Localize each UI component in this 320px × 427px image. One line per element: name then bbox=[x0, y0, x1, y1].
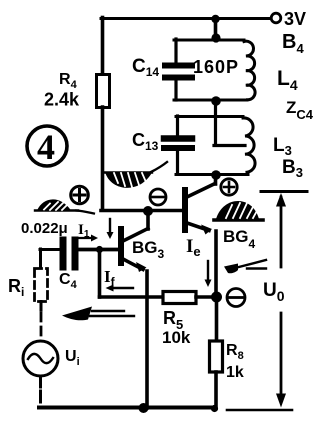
source Ui bbox=[23, 341, 80, 376]
dimension: U0 upper arrow (up) bbox=[276, 193, 286, 267]
node: R8 at ground rail bbox=[211, 405, 218, 412]
svg-text:L3: L3 bbox=[273, 135, 292, 158]
svg-text:L4: L4 bbox=[277, 67, 298, 93]
polarity mark minus (BG3 collector) bbox=[150, 189, 166, 205]
tank 1: capacitor C14 bbox=[132, 39, 247, 100]
inductor L3 (tank 2 coil, tapped) bbox=[243, 118, 255, 172]
wire: left vertical from rail to R4 bbox=[101, 18, 105, 76]
svg-text:U0: U0 bbox=[263, 280, 285, 304]
waveform sketch: hatched half-wave at BG4 bbox=[214, 201, 263, 220]
wire: dashed link to source Ui bbox=[40, 313, 43, 341]
wire: bottom ground rail bbox=[39, 406, 214, 410]
resistor R5 bbox=[162, 292, 196, 348]
svg-text:B4: B4 bbox=[282, 31, 304, 56]
wire: left vertical from R4 down to base-line corner bbox=[101, 107, 105, 210]
svg-text:C14: C14 bbox=[132, 56, 159, 79]
resistor R8 bbox=[210, 341, 244, 381]
node A: BG3 collector / BG4 base bbox=[143, 206, 153, 216]
wire: base line from left rail corner to BG4 base bbox=[101, 209, 183, 213]
wire: output node down to R8 bbox=[215, 297, 219, 341]
svg-text:1k: 1k bbox=[226, 364, 244, 381]
svg-text:R8: R8 bbox=[226, 342, 244, 362]
resistor R4 bbox=[44, 71, 110, 110]
wire: feedback horizontal to R5 bbox=[100, 295, 164, 299]
current label If with arrow bbox=[104, 267, 133, 292]
current label Ie with arrow bbox=[186, 236, 212, 287]
wire: R8 to ground rail bbox=[214, 372, 218, 408]
svg-text:0.022μ: 0.022μ bbox=[21, 220, 68, 237]
svg-text:If: If bbox=[104, 267, 116, 289]
current arrow I1 (into base) bbox=[107, 219, 114, 239]
svg-text:C4: C4 bbox=[59, 271, 78, 291]
dimension: U0 top reference tick bbox=[261, 190, 307, 193]
svg-text:160P: 160P bbox=[193, 57, 239, 77]
svg-text:BG4: BG4 bbox=[223, 227, 256, 251]
waveform sketch: small feedback arrow under BG4 bbox=[224, 260, 266, 273]
tank 2: capacitor C13 bbox=[132, 116, 248, 175]
polarity mark minus (output node) bbox=[227, 289, 245, 307]
svg-text:4: 4 bbox=[37, 127, 55, 167]
terminal 3V (open circle) bbox=[271, 9, 306, 29]
polarity mark plus (left, at BG3 base) bbox=[71, 186, 89, 204]
svg-text:C13: C13 bbox=[132, 130, 159, 153]
svg-text:B3: B3 bbox=[282, 157, 303, 180]
svg-text:R4: R4 bbox=[59, 71, 78, 91]
wire: R5 to output node bbox=[196, 295, 216, 299]
wire: BG4 emitter down to output node bbox=[214, 231, 218, 297]
current label I1 with arrow bbox=[77, 222, 98, 242]
figure number 4 (circled) bbox=[27, 126, 67, 167]
node: emitter at ground rail bbox=[139, 403, 149, 413]
dimension: U0 lower arrow (down) bbox=[276, 313, 286, 408]
polarity mark plus (BG4 collector) bbox=[221, 179, 237, 195]
svg-text:3V: 3V bbox=[284, 9, 306, 29]
svg-text:10k: 10k bbox=[162, 328, 191, 347]
wire: top supply rail bbox=[101, 17, 271, 20]
transistor BG4 bbox=[185, 175, 256, 251]
wire: feedback vertical from base node down bbox=[98, 250, 102, 298]
svg-text:Ri: Ri bbox=[8, 276, 24, 299]
svg-text:2.4k: 2.4k bbox=[44, 90, 80, 110]
wire: tank1 bottom to L3 tap bbox=[214, 101, 245, 146]
svg-text:BG3: BG3 bbox=[132, 238, 165, 261]
wire: rail to tank1 top bbox=[214, 18, 218, 41]
svg-text:Ui: Ui bbox=[65, 348, 80, 368]
node at tank1 bottom bbox=[211, 96, 221, 106]
capacitor C4 bbox=[59, 240, 78, 291]
inductor L4 (tank 1 coil) bbox=[244, 41, 255, 100]
wire: source to ground rail bbox=[39, 376, 42, 406]
waveform sketch: hatched input half-wave at BG3 base bbox=[35, 199, 94, 213]
svg-text:Ie: Ie bbox=[186, 236, 201, 259]
wire: BG3 emitter down to ground rail bbox=[145, 271, 149, 408]
node at rail bbox=[211, 15, 219, 23]
wire: C4 left to input corner bbox=[40, 248, 60, 251]
wire: C4 right to BG3 base bbox=[78, 248, 118, 252]
node at tank1 top bbox=[211, 33, 220, 42]
node at tank2 bottom bbox=[211, 170, 221, 180]
resistor Ri (dashed, source internal) bbox=[35, 249, 48, 310]
waveform sketch: hatched inverted half-wave at BG3 collector bbox=[104, 162, 167, 188]
node at feedback tap bbox=[96, 246, 103, 253]
transistor BG3 bbox=[121, 211, 165, 272]
svg-text:ZC4: ZC4 bbox=[286, 98, 314, 122]
waveform sketch: thick feedback arrow (left) under R5 wire bbox=[62, 307, 134, 321]
node: output (BG4 emitter / R5 / R8) bbox=[211, 292, 222, 303]
wire: ground reference segment (right) bbox=[227, 409, 292, 412]
